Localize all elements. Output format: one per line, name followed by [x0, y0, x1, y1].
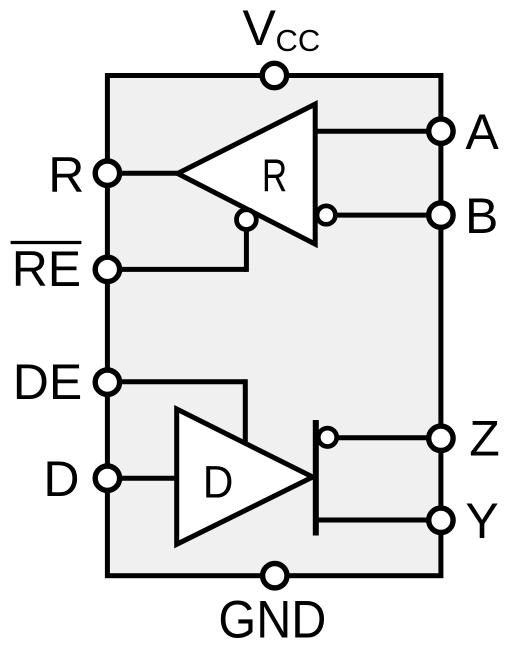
wire DE horizontal: [105, 379, 245, 384]
svg-text:V: V: [243, 0, 277, 56]
svg-text:Z: Z: [469, 411, 500, 467]
pin VCC: [262, 63, 286, 87]
driver triangle U2: [177, 409, 313, 544]
wire Z from bubble to Z pin: [337, 435, 441, 440]
IC body rectangle: [107, 76, 441, 576]
svg-text:B: B: [465, 188, 498, 244]
wire A from receiver base: [313, 129, 441, 134]
wire DE vertical to driver top edge: [243, 379, 248, 447]
pin GND: [263, 564, 287, 588]
driver output bar: [313, 420, 319, 536]
driver Z output bubble: [318, 428, 336, 446]
label GND: [218, 590, 326, 646]
svg-text:DE: DE: [13, 354, 82, 410]
overline for RE: [11, 241, 82, 244]
pin RE: [95, 257, 119, 281]
pin Y: [429, 508, 453, 532]
svg-text:RE: RE: [12, 241, 81, 297]
label D inside driver: [203, 457, 234, 508]
svg-text:D: D: [203, 457, 234, 508]
receiver enable bubble: [237, 210, 257, 230]
svg-text:R: R: [48, 147, 84, 203]
svg-text:D: D: [43, 451, 79, 507]
wire RE horizontal: [105, 267, 246, 272]
svg-text:GND: GND: [218, 590, 326, 646]
wire R pin to receiver apex: [105, 171, 180, 176]
wire Y from driver bar to Y pin: [316, 518, 441, 523]
pin R: [95, 161, 119, 185]
pin DE: [95, 370, 119, 394]
wire B from bubble to B pin: [335, 213, 441, 218]
wire RE vertical to enable bubble: [244, 222, 249, 272]
pin A: [429, 119, 453, 143]
pin D: [95, 466, 119, 490]
pin B: [429, 203, 453, 227]
label R inside receiver: [262, 150, 287, 202]
receiver B output bubble: [317, 206, 335, 224]
svg-text:CC: CC: [276, 23, 321, 58]
wire D pin to driver base: [105, 476, 180, 481]
svg-text:Y: Y: [465, 493, 498, 549]
svg-text:A: A: [465, 104, 499, 160]
pin Z: [429, 426, 453, 450]
svg-text:R: R: [262, 150, 287, 202]
receiver triangle U1: [178, 104, 316, 244]
